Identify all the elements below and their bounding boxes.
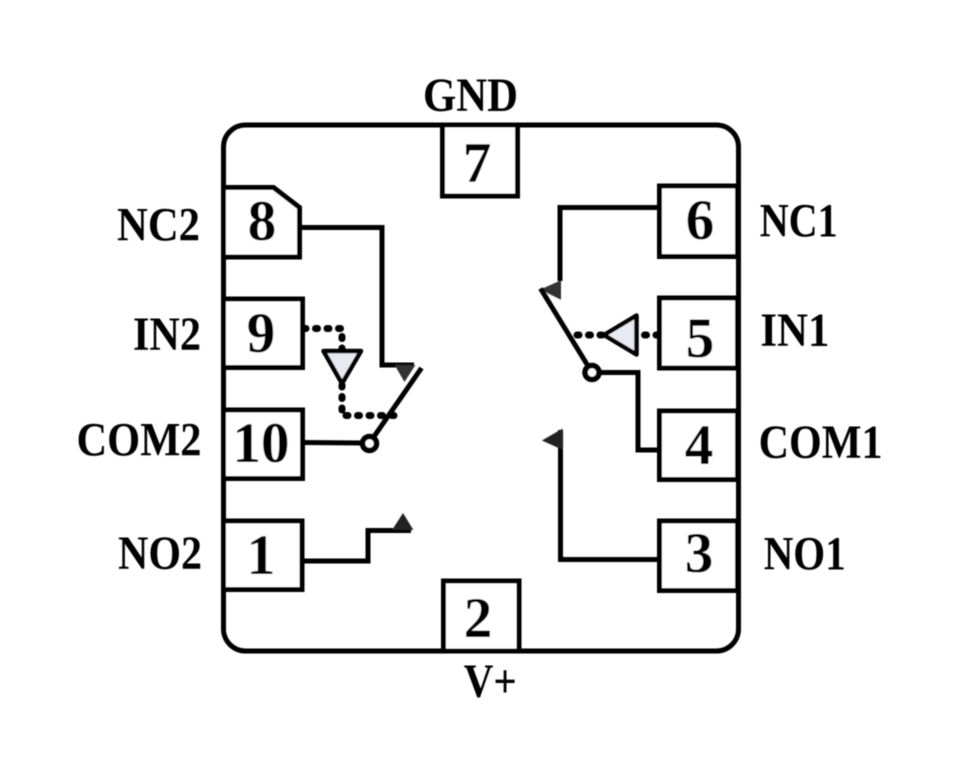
- pin 4 box: [660, 411, 738, 480]
- svg-text:10: 10: [233, 412, 290, 475]
- NC1 contact arrow: [542, 281, 561, 299]
- svg-text:NO1: NO1: [764, 528, 846, 581]
- svg-text:8: 8: [248, 190, 277, 253]
- wire COM2: pin10 to pole: [303, 440, 364, 446]
- svg-text:NC2: NC2: [117, 199, 200, 252]
- svg-text:3: 3: [685, 522, 714, 585]
- svg-text:9: 9: [247, 302, 276, 365]
- pin 9 box: [224, 299, 303, 368]
- NC2 contact arrow: [396, 366, 415, 382]
- pin 10 box: [224, 410, 303, 479]
- svg-text:4: 4: [685, 414, 714, 477]
- NO1 contact arrow: [543, 430, 562, 450]
- inverter U1: [604, 316, 637, 355]
- control dash IN1 to inverter U1: [637, 332, 658, 339]
- svg-text:7: 7: [463, 132, 492, 195]
- svg-text:NO2: NO2: [118, 527, 202, 580]
- NO2 contact arrow: [393, 514, 413, 530]
- svg-text:1: 1: [247, 524, 276, 587]
- svg-text:NC1: NC1: [760, 195, 838, 248]
- svg-text:COM2: COM2: [77, 414, 202, 467]
- control dash U1 to lever 1: [569, 332, 602, 339]
- pin 8 box (chamfered): [224, 188, 300, 258]
- wire NC2: pin8 to contact: [300, 228, 415, 366]
- svg-text:V+: V+: [464, 655, 517, 708]
- svg-text:IN2: IN2: [133, 308, 201, 361]
- control dash IN2 to inverter U2: [304, 329, 342, 350]
- pin 6 box: [660, 186, 738, 257]
- pin 3 box: [660, 521, 738, 591]
- svg-text:2: 2: [464, 587, 493, 650]
- inverter U2: [324, 351, 362, 384]
- pin 2 box: [444, 581, 520, 651]
- switch 2 pole circle: [363, 437, 377, 451]
- pin 7 box: [443, 125, 518, 196]
- switch 1 pole circle: [585, 366, 599, 380]
- wire COM1: pole to pin4: [599, 373, 660, 451]
- IC package outline: [224, 125, 739, 651]
- wire NO2: pin1 to contact: [302, 531, 411, 562]
- wire NC1: pin6 to contact: [560, 208, 660, 282]
- pin 1 box: [224, 521, 303, 590]
- svg-text:6: 6: [686, 189, 715, 252]
- svg-text:IN1: IN1: [760, 304, 829, 357]
- svg-text:COM1: COM1: [759, 416, 883, 469]
- control dash U2 to lever 2: [342, 385, 396, 416]
- pin 5 box: [660, 298, 738, 368]
- switch 2 lever: [370, 368, 422, 443]
- svg-text:GND: GND: [423, 69, 518, 122]
- wire NO1: pin3 to contact: [561, 430, 660, 560]
- svg-text:5: 5: [686, 307, 715, 370]
- switch 1 lever: [541, 289, 593, 373]
